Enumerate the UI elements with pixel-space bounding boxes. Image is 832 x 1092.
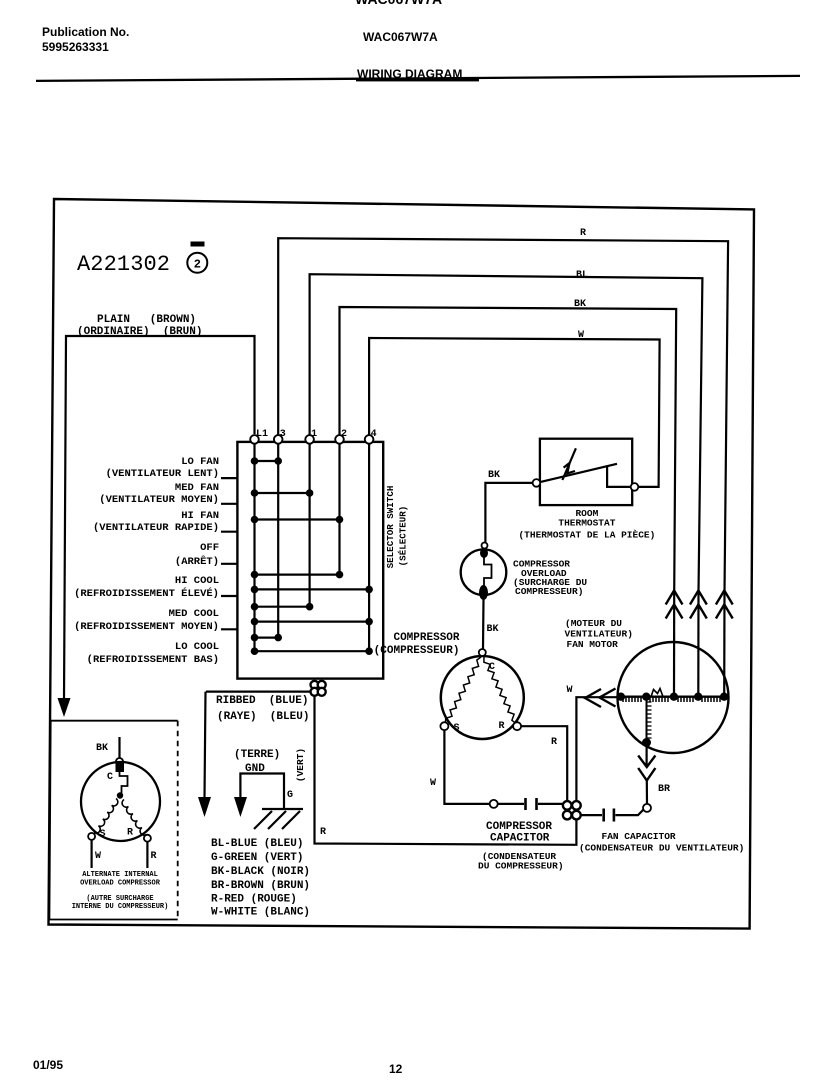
thermostat switch	[536, 464, 617, 483]
alt coil S	[94, 799, 118, 834]
revision mark	[191, 242, 205, 247]
svg-text:(REFROIDISSEMENT MOYEN): (REFROIDISSEMENT MOYEN)	[74, 621, 219, 633]
compressor capacitor plates	[524, 798, 527, 810]
svg-text:W: W	[430, 778, 436, 789]
wire alt R	[146, 842, 148, 868]
header rule	[36, 75, 800, 82]
svg-text:THERMOSTAT: THERMOSTAT	[558, 518, 615, 529]
svg-text:R: R	[151, 851, 157, 862]
svg-text:2: 2	[341, 429, 347, 440]
wire R	[278, 238, 728, 592]
svg-text:FAN CAPACITOR: FAN CAPACITOR	[602, 831, 676, 842]
svg-text:(REFROIDISSEMENT ÉLEVÉ): (REFROIDISSEMENT ÉLEVÉ)	[74, 586, 219, 600]
svg-text:R-RED (ROUGE): R-RED (ROUGE)	[211, 894, 297, 906]
wire brown feed	[64, 336, 255, 700]
svg-text:HI COOL: HI COOL	[175, 575, 219, 587]
svg-text:(VERT): (VERT)	[295, 748, 306, 782]
arrow gnd	[234, 797, 247, 817]
wire overload to compressor	[482, 599, 485, 649]
svg-text:RIBBED (BLUE): RIBBED (BLUE)	[216, 695, 308, 707]
fan motor start winding	[646, 697, 648, 741]
wire BL into motor	[697, 592, 699, 697]
wire cap right	[538, 803, 563, 805]
svg-text:VENTILATEUR): VENTILATEUR)	[565, 629, 633, 640]
svg-text:(VENTILATEUR LENT): (VENTILATEUR LENT)	[106, 468, 219, 480]
wire alt S	[90, 840, 92, 868]
wire BL	[310, 274, 703, 592]
overload top blob	[480, 548, 488, 558]
wire fan cap right	[615, 810, 643, 816]
alt R terminal	[144, 835, 151, 842]
svg-text:WAC067W7A: WAC067W7A	[355, 0, 442, 7]
svg-text:R: R	[320, 827, 326, 838]
svg-text:S: S	[100, 829, 106, 840]
alt C terminal	[116, 758, 123, 765]
compressor S terminal	[440, 722, 448, 730]
svg-text:LO FAN: LO FAN	[181, 456, 219, 468]
arrow ribbed	[198, 797, 211, 817]
junction cluster capacitors	[563, 801, 572, 810]
svg-text:LO COOL: LO COOL	[175, 641, 219, 653]
svg-text:COMPRESSOR: COMPRESSOR	[393, 632, 459, 644]
junction cluster under switch	[311, 681, 319, 689]
svg-text:BR-BROWN (BRUN): BR-BROWN (BRUN)	[211, 880, 310, 892]
arrow left W	[585, 689, 601, 707]
svg-text:BK: BK	[96, 743, 108, 754]
outer border	[49, 199, 755, 929]
switch contact rows	[255, 460, 279, 462]
svg-text:BR: BR	[658, 784, 670, 795]
start winding dot	[642, 738, 651, 747]
wire ribbed left drop	[205, 692, 206, 798]
wire W	[369, 338, 659, 487]
overload circle	[461, 549, 507, 595]
compressor capacitor terminal	[490, 800, 498, 808]
svg-text:MED COOL: MED COOL	[169, 608, 219, 620]
svg-text:BK: BK	[488, 470, 500, 481]
svg-text:R: R	[551, 737, 557, 748]
fan motor stator winding	[617, 696, 730, 698]
svg-text:R: R	[499, 721, 505, 732]
svg-text:BK: BK	[574, 299, 586, 310]
svg-text:(COMPRESSEUR): (COMPRESSEUR)	[374, 645, 460, 657]
arrow down BR	[645, 742, 647, 766]
svg-text:(VENTILATEUR MOYEN): (VENTILATEUR MOYEN)	[99, 494, 219, 506]
alt box	[49, 721, 177, 920]
svg-text:BL-BLUE (BLEU): BL-BLUE (BLEU)	[211, 838, 303, 850]
arrow brown into alt box	[58, 698, 71, 717]
svg-text:(TERRE): (TERRE)	[234, 749, 280, 761]
svg-text:(SÉLECTEUR): (SÉLECTEUR)	[398, 506, 409, 567]
svg-text:4: 4	[371, 429, 377, 440]
overload top terminal	[482, 543, 488, 549]
svg-text:5995263331: 5995263331	[42, 40, 109, 54]
wire BK into motor	[673, 592, 675, 697]
svg-text:C: C	[107, 772, 113, 783]
circled 2	[187, 253, 207, 273]
svg-text:W: W	[578, 330, 584, 341]
svg-text:INTERNE DU COMPRESSEUR): INTERNE DU COMPRESSEUR)	[72, 903, 169, 911]
fan capacitor plates	[602, 809, 605, 822]
svg-text:SELECTOR SWITCH: SELECTOR SWITCH	[385, 486, 396, 569]
svg-text:(REFROIDISSEMENT BAS): (REFROIDISSEMENT BAS)	[87, 654, 219, 666]
svg-text:1: 1	[311, 429, 317, 440]
wire S to capacitor	[444, 730, 489, 804]
svg-text:COMPRESSOR: COMPRESSOR	[486, 821, 552, 833]
svg-text:G-GREEN (VERT): G-GREEN (VERT)	[211, 852, 303, 864]
svg-text:(ARRÊT): (ARRÊT)	[175, 554, 219, 568]
svg-text:HI FAN: HI FAN	[181, 510, 219, 522]
svg-text:CAPACITOR: CAPACITOR	[490, 833, 550, 845]
switch column wires	[253, 443, 255, 652]
svg-text:ALTERNATE INTERNAL: ALTERNATE INTERNAL	[82, 871, 158, 879]
stator junction dots	[617, 693, 625, 701]
wire fan cap left	[581, 814, 602, 816]
svg-text:DU COMPRESSEUR): DU COMPRESSEUR)	[478, 861, 564, 872]
svg-text:(THERMOSTAT DE LA PIÈCE): (THERMOSTAT DE LA PIÈCE)	[518, 530, 655, 541]
compressor circle	[441, 656, 524, 739]
svg-text:(RAYE) (BLEU): (RAYE) (BLEU)	[217, 711, 309, 723]
wire W to cluster	[576, 697, 620, 801]
svg-text:12: 12	[389, 1062, 403, 1076]
wire R to cluster	[521, 726, 567, 801]
thermostat right terminal	[631, 483, 639, 491]
svg-text:R: R	[127, 828, 133, 839]
svg-text:BK: BK	[487, 624, 499, 635]
wire R return	[315, 696, 577, 845]
svg-text:01/95: 01/95	[33, 1058, 63, 1072]
fan capacitor terminal	[643, 804, 651, 812]
alt junction dot	[117, 792, 123, 798]
fan motor circle	[618, 642, 729, 753]
svg-text:BL: BL	[576, 270, 588, 281]
svg-text:Publication No.: Publication No.	[42, 25, 129, 39]
compressor R terminal	[513, 722, 521, 730]
svg-text:OFF: OFF	[200, 542, 219, 554]
svg-text:COMPRESSEUR): COMPRESSEUR)	[515, 586, 583, 597]
svg-text:(AUTRE SURCHARGE: (AUTRE SURCHARGE	[86, 895, 153, 903]
compressor C terminal	[479, 649, 486, 656]
alt coil R	[122, 800, 146, 836]
svg-text:(MOTEUR DU: (MOTEUR DU	[565, 618, 622, 629]
svg-text:PLAIN (BROWN): PLAIN (BROWN)	[97, 314, 196, 326]
thermostat left terminal	[533, 479, 541, 487]
overload element	[484, 557, 492, 586]
label leader lines	[221, 477, 237, 479]
svg-text:3: 3	[280, 429, 286, 440]
wire BR	[646, 780, 648, 804]
ground symbol	[262, 808, 303, 810]
svg-text:MED FAN: MED FAN	[175, 482, 219, 494]
compressor coil S	[446, 657, 482, 724]
wire R into motor	[723, 592, 725, 697]
selector terminals	[250, 435, 259, 444]
thermostat box	[540, 439, 632, 505]
svg-text:G: G	[287, 790, 293, 801]
overload bottom blob	[479, 585, 488, 600]
wire cap left	[498, 803, 524, 805]
compressor coil R	[484, 657, 516, 724]
svg-text:BK-BLACK (NOIR): BK-BLACK (NOIR)	[211, 866, 310, 878]
wire gnd	[240, 774, 284, 810]
wire BK	[340, 307, 677, 592]
svg-text:R: R	[580, 228, 586, 239]
svg-text:2: 2	[194, 258, 201, 272]
svg-text:W: W	[567, 685, 573, 696]
svg-text:W-WHITE (BLANC): W-WHITE (BLANC)	[211, 907, 310, 919]
svg-text:(CONDENSATEUR DU VENTILATEUR): (CONDENSATEUR DU VENTILATEUR)	[579, 843, 744, 854]
svg-text:FAN MOTOR: FAN MOTOR	[567, 639, 619, 650]
svg-text:WAC067W7A: WAC067W7A	[363, 30, 438, 44]
arrows up into fan motor	[666, 591, 683, 605]
svg-text:OVERLOAD COMPRESSOR: OVERLOAD COMPRESSOR	[80, 880, 161, 888]
selector switch box	[237, 442, 383, 679]
svg-text:W: W	[95, 851, 101, 862]
wire thermostat to overload	[485, 483, 532, 542]
svg-text:(VENTILATEUR RAPIDE): (VENTILATEUR RAPIDE)	[93, 522, 219, 534]
alt S terminal	[88, 833, 95, 840]
svg-text:L1: L1	[256, 429, 268, 440]
wire ribbed top	[206, 690, 311, 692]
alt internal overload zigzag	[116, 763, 125, 772]
svg-text:A221302: A221302	[77, 252, 170, 277]
wire alt top	[118, 737, 120, 759]
svg-text:S: S	[454, 723, 460, 734]
alt compressor circle	[81, 762, 160, 841]
